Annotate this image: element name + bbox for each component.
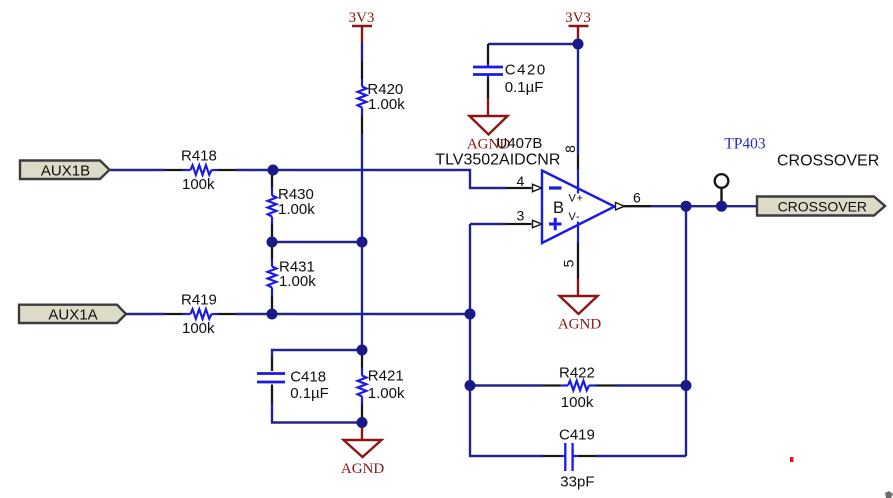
capacitor C419 — [543, 426, 597, 490]
svg-text:8: 8 — [562, 145, 578, 153]
svg-text:B: B — [553, 199, 564, 217]
wire feedback vertical right — [685, 206, 687, 456]
svg-text:3V3: 3V3 — [565, 10, 591, 26]
wire AUX1A to junction — [236, 313, 470, 315]
svg-text:C420: C420 — [505, 61, 547, 78]
capacitor C418 — [257, 357, 329, 403]
resistor R418 — [165, 147, 236, 193]
svg-text:TLV3502AIDCNR: TLV3502AIDCNR — [435, 152, 560, 169]
ground AGND no2 — [558, 279, 601, 332]
svg-text:100k: 100k — [182, 320, 215, 337]
wire pin3 horizontal — [470, 223, 506, 225]
port AUX1A — [19, 305, 126, 324]
wire 3V3 no1 vertical upper — [361, 44, 363, 62]
pin 4 lead — [506, 187, 532, 189]
wire pin3 vertical down to feedback — [470, 224, 543, 456]
svg-text:V+: V+ — [569, 193, 584, 205]
svg-text:R422: R422 — [559, 365, 595, 382]
artifact red dot — [790, 457, 793, 462]
junction R422 left — [465, 380, 476, 391]
wire R420 bottom vertical — [361, 134, 363, 350]
svg-text:U407B: U407B — [497, 135, 543, 152]
svg-text:6: 6 — [633, 189, 641, 205]
svg-text:R421: R421 — [368, 368, 404, 385]
svg-text:AUX1B: AUX1B — [41, 163, 90, 180]
op-amp U407B — [435, 135, 651, 279]
svg-text:3V3: 3V3 — [349, 10, 375, 26]
resistor R430 — [268, 170, 316, 242]
svg-text:1.00k: 1.00k — [279, 273, 316, 290]
wire AUX1B net to pin4 — [236, 170, 506, 188]
pin 5 blue inside — [577, 222, 579, 244]
plus sign — [549, 223, 562, 226]
svg-text:5: 5 — [561, 259, 577, 267]
artifact gray mark — [885, 491, 893, 498]
svg-text:0.1µF: 0.1µF — [505, 79, 544, 96]
wire C418 bottom — [272, 403, 362, 423]
wire AUX1B net horizontal — [110, 169, 165, 171]
power 3V3 no1 — [349, 10, 375, 44]
svg-text:1.00k: 1.00k — [368, 385, 405, 402]
junction C418 bottom — [357, 417, 368, 428]
svg-text:R419: R419 — [181, 291, 217, 308]
wire 3V3 no2 down to pin8 — [577, 44, 579, 155]
triangle body — [542, 171, 615, 244]
svg-text:CROSSOVER: CROSSOVER — [778, 199, 867, 215]
pin 3 lead — [506, 223, 532, 225]
junction 3V3/C420 — [573, 39, 584, 50]
port CROSSOVER — [757, 197, 885, 216]
wire AUX1A net — [126, 313, 165, 315]
junction AUX1A/pin3 — [465, 309, 476, 320]
svg-text:R418: R418 — [181, 147, 217, 164]
wire C418 top — [272, 350, 362, 357]
junction output/feedback — [681, 201, 692, 212]
svg-text:100k: 100k — [561, 394, 594, 411]
svg-text:100k: 100k — [182, 176, 215, 193]
svg-text:CROSSOVER: CROSSOVER — [777, 153, 879, 170]
wire C420 top — [488, 43, 578, 45]
minus bar — [549, 186, 562, 189]
ground AGND no3 — [341, 423, 384, 477]
svg-text:AUX1A: AUX1A — [48, 306, 97, 323]
resistor R422 — [543, 365, 615, 412]
svg-text:C419: C419 — [559, 426, 595, 443]
svg-text:4: 4 — [517, 173, 525, 189]
svg-text:C418: C418 — [290, 369, 326, 386]
resistor R419 — [165, 291, 236, 337]
svg-text:3: 3 — [517, 208, 525, 224]
svg-text:V-: V- — [569, 211, 581, 223]
wire C419 right — [597, 455, 686, 457]
junction AUX1A/R431 — [267, 309, 278, 320]
junction AUX1B/R430 — [268, 165, 279, 176]
svg-text:TP403: TP403 — [724, 136, 766, 153]
ground AGND no1 — [467, 98, 510, 152]
svg-text:AGND: AGND — [558, 316, 601, 332]
svg-text:AGND: AGND — [341, 461, 384, 477]
wire R422 right — [615, 384, 686, 386]
junction mid right — [357, 237, 368, 248]
svg-text:1.00k: 1.00k — [278, 201, 315, 218]
pin 8 black segment — [577, 155, 579, 169]
junction R422 right — [681, 380, 692, 391]
resistor R421 — [358, 350, 405, 423]
junction R430/mid left — [267, 237, 278, 248]
pin 6 lead — [623, 205, 651, 207]
testpoint TP403 — [715, 136, 766, 207]
wire divider mid horizontal — [272, 241, 362, 243]
svg-text:33pF: 33pF — [560, 474, 594, 491]
svg-text:0.1µF: 0.1µF — [290, 385, 329, 402]
junction output/TP403 — [716, 201, 727, 212]
resistor R431 — [268, 242, 317, 314]
wire output net — [651, 205, 757, 207]
capacitor C420 — [473, 44, 547, 98]
port AUX1B — [20, 161, 110, 180]
pin 8 blue inside — [577, 169, 579, 194]
svg-text:1.00k: 1.00k — [368, 96, 405, 113]
power 3V3 no2 — [565, 10, 591, 44]
pin 5 black segment — [577, 243, 579, 279]
junction C418 top — [357, 345, 368, 356]
wire R422 left — [470, 384, 543, 386]
resistor R420 — [358, 61, 406, 134]
